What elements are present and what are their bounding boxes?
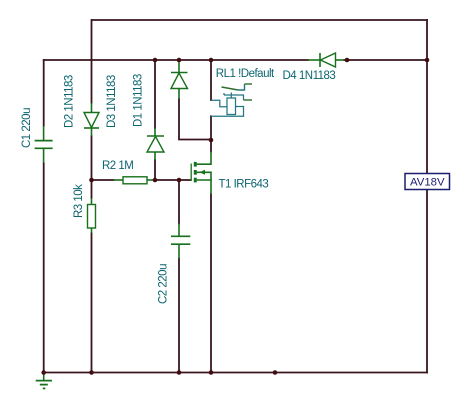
channel bars <box>194 162 197 167</box>
node dot (179,180) <box>177 178 182 183</box>
capacitor C1 <box>35 126 53 163</box>
node dot (275,372) <box>273 370 278 375</box>
node dot (211,140) <box>209 138 214 143</box>
wire right vertical <box>426 20 428 373</box>
svg-text:AV18V: AV18V <box>410 177 445 189</box>
svg-text:R2 1M: R2 1M <box>102 160 133 172</box>
wire gate row y=180 <box>92 179 191 181</box>
capacitor C2 <box>171 224 190 259</box>
relay RL1 coil <box>211 93 244 117</box>
node dot (179,372) <box>177 370 182 375</box>
transistor T1 IRF643 n-mosfet <box>191 152 211 195</box>
wire x=179 branch (D1 to drain node) <box>179 99 211 140</box>
svg-text:D2 1N1183: D2 1N1183 <box>64 75 76 128</box>
node dot (44,372) <box>41 370 46 375</box>
diode D4 (horizontal, cathode left) <box>308 53 344 67</box>
wire x=211 relay branch <box>210 60 212 152</box>
resistor R3 <box>88 198 96 233</box>
node dot (155,180) <box>153 178 158 183</box>
body lead with arrow <box>197 172 211 180</box>
svg-text:D4 1N1183: D4 1N1183 <box>283 70 336 82</box>
svg-text:C1 220u: C1 220u <box>21 108 33 148</box>
svg-text:T1 IRF643: T1 IRF643 <box>219 179 269 191</box>
wire x=155 branch (D3) <box>154 60 156 180</box>
wire second horizontal rail y=60 <box>44 59 427 61</box>
diode D3 (on x=155, cathode up) <box>147 128 164 160</box>
node dot (347,60) <box>345 58 350 63</box>
resistor R2 <box>114 177 157 184</box>
node dot (211,372) <box>209 370 214 375</box>
diode D1 (on x=179, cathode up) <box>171 60 188 99</box>
wire left vertical x=44 <box>43 60 45 373</box>
ground <box>36 373 52 389</box>
node dot (211,60) <box>209 58 214 63</box>
relay RL1 contact <box>222 84 253 100</box>
svg-text:C2 220u: C2 220u <box>157 264 169 304</box>
svg-text:D3 1N1183: D3 1N1183 <box>106 75 118 128</box>
node dot (91,180) <box>89 178 94 183</box>
source lead <box>197 180 211 194</box>
power label AV18V <box>405 174 450 190</box>
gate bar <box>190 164 192 182</box>
node dot (427,60) <box>425 58 430 63</box>
wire x=91 branch (D2/R3) <box>91 20 93 373</box>
wire source branch <box>210 194 212 373</box>
svg-text:D1 1N1183: D1 1N1183 <box>133 74 145 127</box>
node dot (91,372) <box>89 370 94 375</box>
wire C2 branch <box>178 180 180 373</box>
diode D2 (cathode down) <box>84 103 99 136</box>
svg-text:RL1 !Default: RL1 !Default <box>216 68 275 80</box>
node dot (155,60) <box>153 58 158 63</box>
drain lead <box>197 152 211 165</box>
svg-text:R3 10k: R3 10k <box>73 184 85 218</box>
wire bottom horizontal <box>44 372 427 374</box>
node dot (179,60) <box>177 58 182 63</box>
wire top horizontal <box>92 19 427 21</box>
